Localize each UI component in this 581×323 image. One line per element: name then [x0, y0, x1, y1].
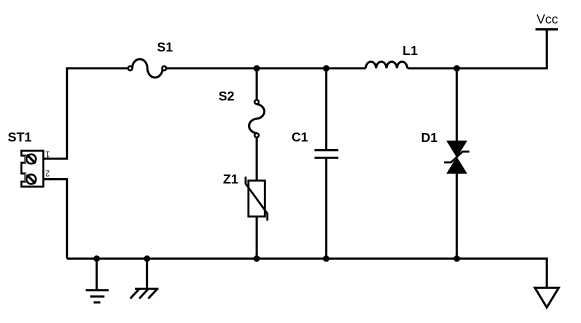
junction dot top D1	[454, 65, 460, 71]
svg-text:1: 1	[45, 149, 50, 158]
junction dot top C1	[323, 65, 329, 71]
wire bottom rail	[67, 259, 547, 288]
wire C1 branch top	[325, 68, 327, 150]
ground signal (right triangle)	[535, 288, 559, 308]
junction dot bottom chassis	[144, 255, 150, 261]
wire Z1 to bottom rail	[256, 217, 258, 259]
svg-text:Z1: Z1	[223, 171, 238, 186]
junction dot bottom C1	[323, 255, 329, 261]
ground chassis	[130, 259, 158, 299]
wire top rail middle segment	[166, 67, 366, 69]
switch S2	[219, 89, 265, 138]
wire left drop from top rail to ST1 pin 1	[44, 67, 68, 159]
svg-text:Vcc: Vcc	[537, 12, 559, 27]
wire D1 branch bottom	[456, 173, 458, 258]
power Vcc	[536, 12, 559, 30]
wire ST1 pin 2 to bottom rail	[44, 179, 68, 259]
connector ST1	[8, 129, 50, 186]
wire top rail right segment to Vcc riser	[407, 29, 546, 68]
svg-text:D1: D1	[421, 130, 438, 145]
inductor L1	[366, 43, 418, 69]
junction dot top S2	[254, 65, 260, 71]
junction dot bottom earth	[94, 255, 100, 261]
ground earth (left)	[86, 259, 109, 303]
svg-text:S2: S2	[219, 89, 235, 104]
svg-text:S1: S1	[157, 40, 173, 55]
wire D1 branch top	[456, 68, 458, 141]
wire S2 branch top	[256, 68, 258, 100]
junction dot bottom S2	[254, 255, 260, 261]
svg-text:ST1: ST1	[8, 129, 32, 144]
TVS diode D1	[421, 130, 469, 173]
wire top rail left segment	[67, 67, 128, 69]
svg-text:2: 2	[45, 168, 50, 177]
wire C1 branch bottom	[325, 158, 327, 259]
svg-text:L1: L1	[403, 43, 418, 58]
switch S1	[128, 40, 173, 78]
wire S2 to Z1	[256, 138, 258, 181]
capacitor C1	[292, 129, 339, 158]
junction dot bottom D1	[454, 255, 460, 261]
varistor Z1	[223, 171, 267, 220]
svg-text:C1: C1	[292, 129, 309, 144]
